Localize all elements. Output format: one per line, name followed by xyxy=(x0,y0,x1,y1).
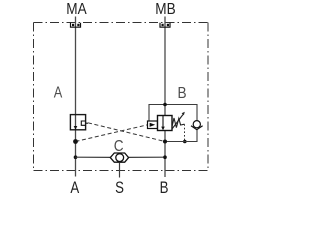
check valve V1 xyxy=(191,121,203,130)
node on B riser (bottom loop tee) xyxy=(163,140,167,144)
shuttle valve seat (lens) xyxy=(110,153,128,162)
arrow inside A-side valve xyxy=(74,126,78,130)
pilot arrow inside box xyxy=(150,123,156,127)
spring of relief valve xyxy=(172,118,185,128)
svg-text:S: S xyxy=(115,179,124,198)
node on B riser (shuttle tee) xyxy=(163,155,167,159)
pilot line dashed (A-side valve to B junction) xyxy=(88,123,165,142)
svg-text:A: A xyxy=(54,84,63,102)
dotted drain wire from spring xyxy=(184,124,186,141)
svg-text:A: A xyxy=(70,179,80,198)
node drain to bottom loop xyxy=(183,140,187,144)
shuttle ball xyxy=(116,154,124,162)
flow arrow inside relief valve xyxy=(162,116,164,127)
plugged side port of A-side valve xyxy=(81,121,88,125)
node on B riser (top loop cross) xyxy=(163,103,167,107)
enclosure dash-dot border xyxy=(34,23,209,171)
svg-text:MA: MA xyxy=(66,1,86,18)
svg-text:B: B xyxy=(177,85,186,102)
wire A riser (MA to bottom) xyxy=(75,17,77,177)
port MB plug symbol xyxy=(160,23,170,28)
shuttle line wire (A riser to B riser) xyxy=(76,156,111,158)
counterbalance relief valve square U1 xyxy=(158,116,173,131)
node on A riser (shuttle tee) xyxy=(74,155,78,159)
node on A riser (pilot take-off) xyxy=(73,139,78,144)
svg-text:MB: MB xyxy=(155,1,175,18)
counterbalance pilot piston box xyxy=(148,121,158,129)
wire B riser (MB to bottom) xyxy=(164,17,166,178)
valve A-side 2/2 cartridge square xyxy=(70,115,85,130)
pilot line dashed (A junction to counterbalance pilot) xyxy=(76,125,148,142)
port MA plug symbol xyxy=(71,23,81,28)
adjustment arrow across spring xyxy=(172,115,183,130)
check valve bypass wire (right leg + bottom) xyxy=(165,129,197,142)
wire shuttle drain to S xyxy=(119,163,121,178)
counterbalance pilot loop wire xyxy=(149,105,197,122)
svg-text:B: B xyxy=(160,179,169,198)
